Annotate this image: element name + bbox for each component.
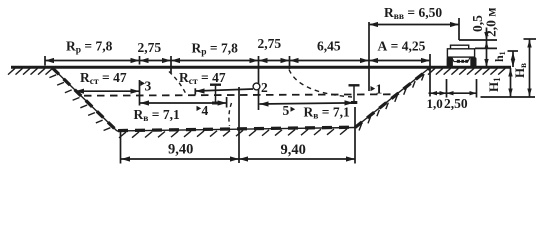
dim Rst2 line — [196, 89, 254, 91]
point 3 flag — [140, 81, 145, 86]
svg-text:А = 4,25: А = 4,25 — [378, 39, 426, 54]
ground hatching left — [8, 68, 15, 74]
arrows 9,40 right — [239, 156, 248, 161]
arrows Rp2 — [171, 58, 180, 63]
pit left slope line — [52, 68, 117, 132]
tick x289.5 — [289, 56, 291, 69]
survey rod 1 — [210, 83, 221, 85]
tick x258.5 extension to point 2 — [258, 56, 260, 110]
truck body — [447, 49, 474, 57]
svg-text:9,40: 9,40 — [168, 142, 193, 158]
svg-text:Rр = 7,8: Rр = 7,8 — [66, 39, 113, 56]
point 1 flag — [371, 86, 376, 91]
dim 2,0m bottom arrow — [484, 59, 488, 67]
excavator axis line x369 — [368, 22, 370, 91]
pit edge extension x430 — [429, 54, 431, 97]
arrows 9,40 left — [121, 156, 130, 161]
arrows 2,50 — [447, 91, 454, 95]
ground hatching right — [428, 68, 435, 74]
pit right slope dashed contour — [355, 68, 430, 128]
lower reference line — [481, 96, 536, 98]
svg-text:Нв: Нв — [512, 63, 528, 78]
svg-text:2: 2 — [261, 80, 268, 95]
arrows Rp1 — [45, 58, 54, 63]
dim Hv arrows — [527, 40, 531, 48]
svg-text:4: 4 — [202, 103, 209, 118]
svg-text:Rв = 7,1: Rв = 7,1 — [304, 105, 350, 122]
svg-text:6,45: 6,45 — [317, 39, 341, 54]
intermediate level dashed line — [84, 94, 394, 95]
svg-text:5: 5 — [283, 103, 290, 118]
truck cab top — [451, 45, 469, 49]
pit bottom dashed contour — [118, 127, 355, 130]
tick x171 — [170, 56, 172, 73]
dim Rv2 arrows — [260, 101, 269, 106]
bottom tick x120.5 — [120, 132, 122, 164]
svg-text:Rвв = 6,50: Rвв = 6,50 — [384, 5, 442, 22]
top dimension chain line — [45, 60, 430, 62]
dim 2,0m top arrow — [484, 41, 488, 49]
arrows A=4,25 — [369, 58, 378, 63]
arrows 6,45 — [290, 58, 299, 63]
pit bottom line — [117, 128, 355, 132]
tick x446.5 — [446, 79, 448, 98]
bucket path arc 2 — [289, 70, 352, 98]
pit center axis x239 — [238, 87, 240, 163]
ground surface line — [11, 66, 511, 69]
pit left slope dashed contour — [53, 68, 118, 131]
dim Rv1 line — [140, 102, 227, 104]
dim Hv stem — [529, 39, 531, 97]
dim 0,5 outside arrow — [484, 32, 488, 40]
tick x139.5 — [139, 56, 141, 65]
bucket path arc 3 — [229, 103, 232, 126]
dim H1 arrows — [508, 69, 512, 77]
truck underbody — [452, 57, 471, 62]
pit bottom hatching — [119, 132, 126, 138]
svg-text:9,40: 9,40 — [281, 142, 306, 158]
dim Rv1 arrows — [140, 100, 149, 105]
svg-text:1,0: 1,0 — [427, 96, 443, 111]
dim Rst1 arrows — [75, 89, 84, 94]
pit right slope line — [355, 68, 430, 128]
svg-text:2,75: 2,75 — [138, 40, 162, 55]
tick x476.5 — [476, 79, 478, 98]
svg-text:h1: h1 — [492, 51, 507, 62]
survey rod 2 — [349, 84, 360, 86]
dim h1 stem — [512, 51, 514, 67]
dim H1 stem — [510, 68, 512, 97]
arrows 2,75 second — [259, 58, 268, 63]
truck clearance extension line — [458, 18, 460, 40]
bucket path arc 1 — [169, 72, 186, 95]
svg-text:Rст = 47: Rст = 47 — [80, 70, 127, 87]
svg-text:Н1: Н1 — [486, 77, 502, 92]
svg-text:Rр = 7,8: Rр = 7,8 — [192, 41, 239, 58]
truck left wheel — [447, 57, 453, 66]
Rvv dimension line — [369, 24, 459, 26]
Rvv arrows — [369, 22, 378, 27]
svg-text:Rст = 47: Rст = 47 — [179, 70, 226, 87]
extension line x139.5 lower — [139, 80, 141, 106]
svg-text:1: 1 — [376, 82, 383, 97]
point 2 circle — [253, 83, 260, 90]
tick x45 — [44, 56, 46, 66]
truck right wheel — [470, 57, 476, 66]
svg-text:2,75: 2,75 — [258, 36, 282, 51]
point 4 flag — [197, 106, 202, 111]
dim Rv1 right tick — [226, 97, 228, 108]
dim Hv top tick — [524, 38, 537, 40]
arrows 1,0 — [430, 91, 437, 95]
dim Rst1 line — [75, 90, 140, 92]
dim h1 tick — [508, 50, 519, 52]
dim 2,0m stem — [486, 28, 488, 68]
svg-text:Rв = 7,1: Rв = 7,1 — [134, 107, 180, 124]
left slope hatching — [49, 75, 56, 78]
bottom dimension line — [121, 158, 356, 160]
dim h1 arrows — [511, 52, 515, 60]
bottom tick x355 — [354, 107, 356, 164]
svg-text:3: 3 — [145, 79, 152, 94]
point 5 flag — [291, 107, 296, 112]
dim Rst2 arrow — [196, 88, 205, 93]
arrows 2,75 first — [140, 58, 149, 63]
right slope hatching — [359, 124, 362, 131]
svg-text:2,50: 2,50 — [444, 96, 468, 111]
dim Rv2 line — [260, 103, 354, 104]
dim line 1,0-2,50 — [429, 92, 477, 94]
tick y48.5 body-top level — [475, 47, 497, 49]
